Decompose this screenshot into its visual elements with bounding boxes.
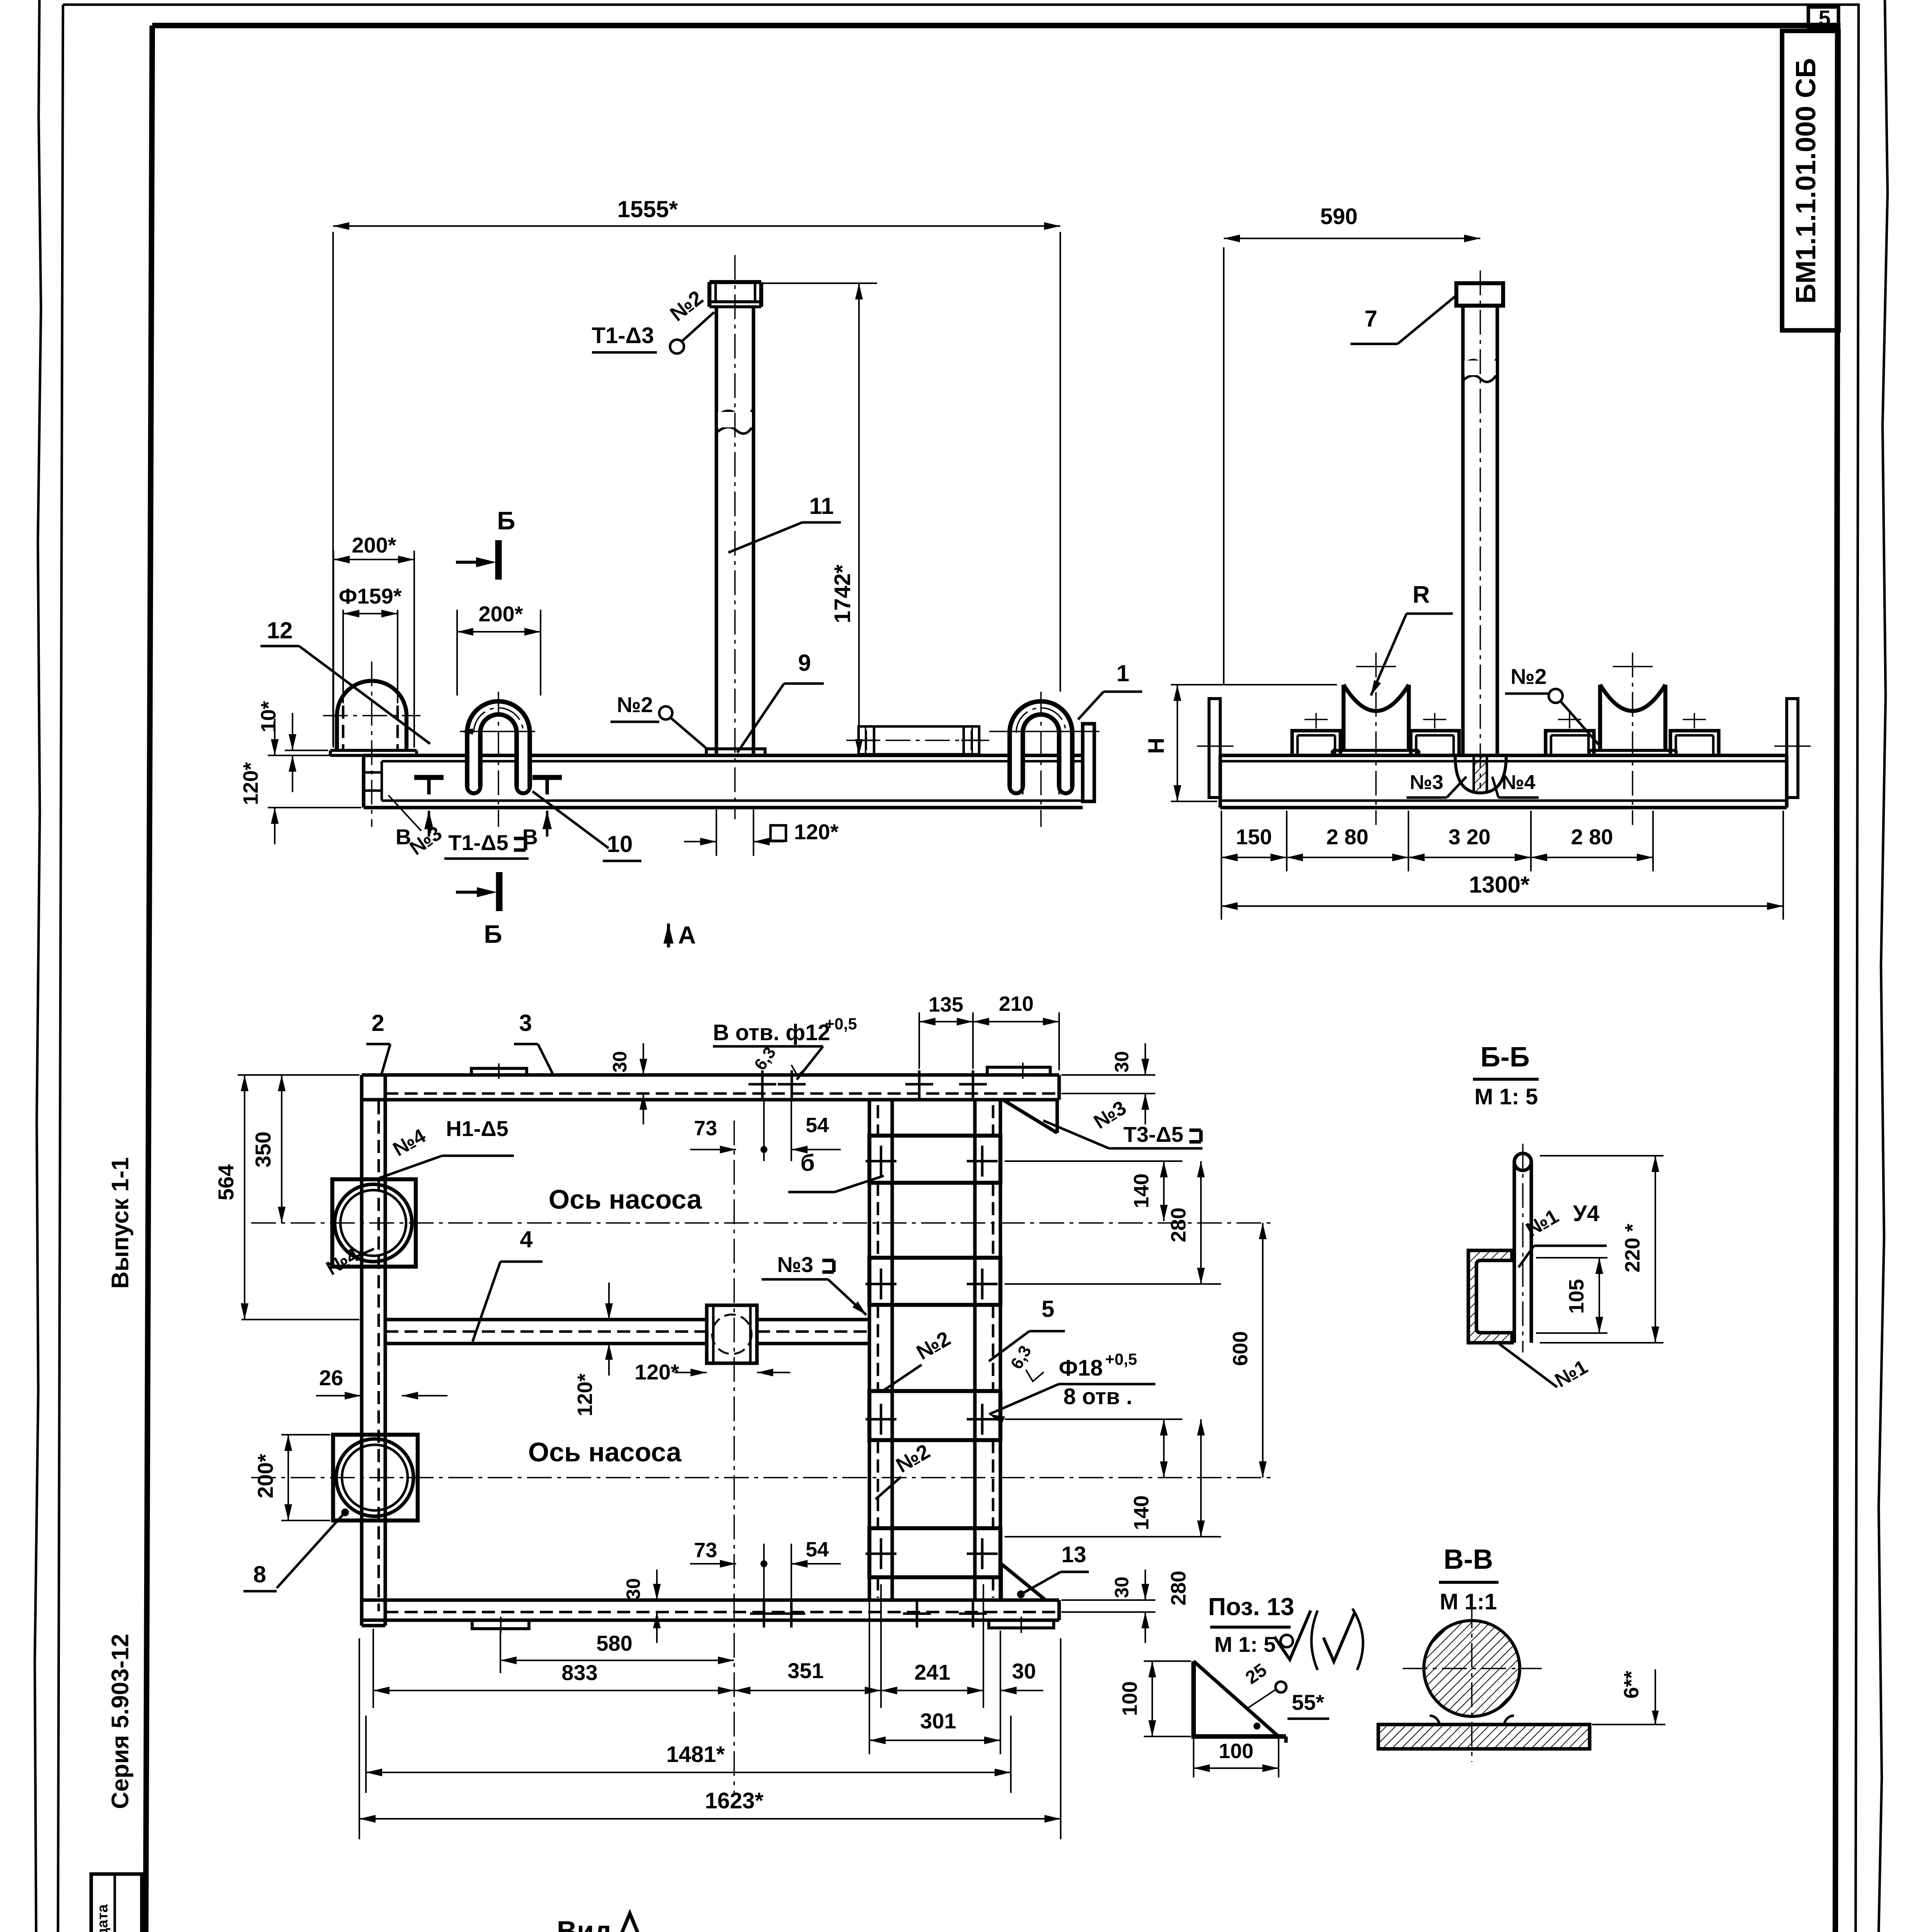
svg-text:Т1-Δ3: Т1-Δ3: [592, 323, 654, 348]
plan view plate row 3: [869, 1391, 1000, 1440]
plan view lower pipe stand square item 8: [333, 1435, 418, 1520]
svg-text:100: 100: [1118, 1681, 1141, 1716]
plan view top bar right tab: [987, 1067, 1050, 1075]
plan view top-right gusset: [1003, 1100, 1057, 1133]
svg-text:200*: 200*: [352, 533, 396, 557]
svg-text:2 80: 2 80: [1327, 825, 1369, 849]
svg-text:120*: 120*: [239, 762, 262, 805]
svg-text:Б-Б: Б-Б: [1480, 1042, 1529, 1073]
section Б-Б rod: [1512, 1162, 1516, 1343]
right view channel stub 1: [1292, 731, 1340, 756]
svg-text:Т3-Δ5: Т3-Δ5: [1123, 1122, 1183, 1146]
svg-text:3 20: 3 20: [1449, 825, 1491, 849]
plan bottom dimension 580: [500, 1631, 501, 1673]
front view dome centerlines: [371, 662, 372, 827]
paper edge right (scan artifact): [1875, 0, 1888, 1932]
plan view upper pipe stand square item 8: [332, 1179, 416, 1267]
plan view top bar: [362, 1073, 1059, 1077]
svg-text:Ф18: Ф18: [1059, 1355, 1103, 1381]
front view post break symbol: [716, 408, 753, 417]
dimension 30 bottom bar right: [1061, 1599, 1155, 1601]
svg-text:5: 5: [1041, 1296, 1054, 1322]
svg-text:105: 105: [1565, 1279, 1588, 1314]
right view right saddle centerline: [1632, 653, 1633, 825]
svg-text:Ф159*: Ф159*: [338, 584, 401, 608]
plan view ladder left rail: [867, 1100, 871, 1600]
svg-text:№3: №3: [777, 1252, 813, 1277]
svg-text:200*: 200*: [478, 602, 523, 626]
front view hidden equipment outline: [859, 726, 979, 754]
svg-text:4: 4: [520, 1226, 533, 1252]
plan view upper stand circles: [335, 1184, 412, 1262]
dimension 200* lower square: [281, 1434, 330, 1435]
svg-text:Серия 5.903-12: Серия 5.903-12: [107, 1634, 134, 1809]
section mark В left with arrow: [424, 811, 434, 829]
dimension 1555*: [332, 232, 334, 746]
right view weld boss at post base No3 No4: [1455, 756, 1506, 793]
svg-text:Поз. 13: Поз. 13: [1208, 1593, 1294, 1621]
plan view plate row 2: [869, 1258, 1000, 1305]
right view right end plate: [1787, 699, 1798, 798]
plan frame vertical center axis: [733, 1121, 735, 1793]
dimension 10* saddle pad thickness: [285, 750, 328, 751]
plan view ladder right rail: [973, 1100, 976, 1600]
right side dimension 140 lower: [1005, 1418, 1182, 1420]
plan view lower stand circles: [336, 1439, 413, 1516]
plan view top bar left tab: [471, 1068, 527, 1075]
dimension 350 left: [238, 1074, 359, 1076]
svg-text:590: 590: [1320, 204, 1358, 229]
right view post face: [1461, 306, 1464, 755]
section В-В rod circle hatched: [1424, 1621, 1520, 1716]
right side dimension 280 upper: [1005, 1283, 1221, 1285]
svg-text:26: 26: [319, 1366, 343, 1390]
svg-text:№4: №4: [1502, 771, 1536, 794]
svg-text:1: 1: [1116, 660, 1129, 686]
dimension 200* over dome pad: [333, 551, 334, 748]
detail Поз.13 triangle: [1194, 1661, 1286, 1736]
dimension 73 54 top: [763, 1101, 765, 1161]
svg-text:У4: У4: [1573, 1201, 1599, 1226]
right view left saddle R: [1344, 685, 1409, 750]
dimension 1742* vertical: [761, 282, 877, 284]
svg-text:А: А: [678, 921, 696, 949]
dimension 1300*: [1782, 811, 1784, 920]
detail Поз.13 weld symbols: [1274, 1611, 1311, 1660]
svg-text:Б: Б: [484, 920, 502, 948]
plan view bottom bar right tab: [989, 1620, 1054, 1628]
plan bottom dimension 1623*: [359, 1638, 360, 1839]
dimension 73 54 bottom: [763, 1544, 765, 1611]
dimension 120* rail width rotated: [608, 1282, 610, 1320]
svg-text:В-В: В-В: [1444, 1544, 1493, 1575]
svg-text:280: 280: [1167, 1207, 1190, 1242]
svg-text:№2: №2: [617, 692, 653, 717]
right view post cap item 7: [1456, 283, 1503, 306]
svg-text:6**: 6**: [1620, 1671, 1643, 1699]
svg-text:55*: 55*: [1292, 1690, 1324, 1714]
front view beam channel side: [364, 753, 1083, 757]
svg-text:210: 210: [999, 992, 1034, 1015]
plan view bottom bar: [362, 1598, 1059, 1602]
front view beam left end: [362, 755, 365, 808]
front view U-bolt clamp item 10: [467, 730, 480, 787]
plan view plate row 4: [869, 1528, 1000, 1577]
svg-text:5: 5: [1818, 6, 1830, 30]
detail Поз.13 dimension 100 vertical: [1144, 1660, 1191, 1662]
svg-text:73: 73: [694, 1539, 717, 1562]
plan view bolt holes on bars: [748, 1083, 776, 1086]
plan view bottom bar left tab: [472, 1620, 529, 1629]
svg-text:564: 564: [214, 1164, 238, 1200]
svg-text:833: 833: [561, 1660, 597, 1685]
section Б-Б dimension 220*: [1540, 1155, 1663, 1156]
svg-text:7: 7: [1364, 306, 1377, 332]
svg-text:8: 8: [253, 1561, 266, 1587]
section Б-Б channel with hatch: [1468, 1250, 1512, 1343]
svg-text:350: 350: [251, 1131, 275, 1167]
upper pump axis line: [251, 1222, 1273, 1224]
right view channel stub 4: [1670, 731, 1719, 756]
svg-text:73: 73: [694, 1117, 717, 1140]
svg-text:2 80: 2 80: [1571, 825, 1613, 849]
svg-text:Н: Н: [1144, 738, 1169, 754]
svg-text:30: 30: [622, 1578, 644, 1600]
svg-text:280: 280: [1167, 1571, 1190, 1605]
svg-text:200*: 200*: [253, 1454, 277, 1498]
plan bottom dimension 833: [372, 1629, 374, 1708]
svg-text:Т1-Δ5: Т1-Δ5: [448, 830, 508, 855]
svg-text:Вид: Вид: [557, 1916, 612, 1932]
right view left saddle centerline: [1375, 653, 1377, 825]
svg-text:30: 30: [609, 1051, 631, 1073]
plan bottom dimension 30: [1000, 1631, 1001, 1754]
svg-text:11: 11: [809, 493, 833, 519]
svg-text:Ось насоса: Ось насоса: [549, 1184, 702, 1214]
svg-text:10: 10: [607, 831, 633, 857]
section mark В right with arrow: [543, 811, 552, 829]
plan view tab center ticks: [498, 1063, 500, 1079]
svg-text:БМ1.1.1.01.000 СБ: БМ1.1.1.01.000 СБ: [1791, 58, 1821, 304]
svg-text:100: 100: [1219, 1740, 1253, 1763]
front view U-bolt 10 centerlines: [498, 692, 499, 827]
detail Поз.13 dimension 100 horizontal: [1193, 1739, 1194, 1777]
section mark Б lower: [496, 872, 503, 911]
right side dimension 140 upper: [1005, 1160, 1182, 1162]
paper edge left (scan artifact): [32, 0, 41, 1932]
front view dome saddle base plate item 12 pad: [330, 749, 417, 752]
svg-text:140: 140: [1130, 1173, 1153, 1208]
svg-text:120*: 120*: [573, 1373, 597, 1416]
svg-text:54: 54: [806, 1114, 829, 1137]
svg-text:1481*: 1481*: [666, 1742, 725, 1767]
front view post centerline: [734, 255, 736, 819]
plan view plate row 1 item 6: [869, 1136, 1000, 1183]
front view right U-bolt item 1: [1010, 730, 1023, 787]
view direction mark А: [663, 923, 673, 944]
svg-text:Б: Б: [497, 506, 515, 535]
plan view left member: [360, 1075, 363, 1626]
front view beam right end plate: [1083, 724, 1094, 801]
svg-text:30: 30: [1012, 1659, 1036, 1683]
section В-В centerlines: [1403, 1668, 1542, 1669]
svg-text:580: 580: [596, 1631, 632, 1655]
right view channel stub 3: [1546, 731, 1594, 756]
front view post base plate item 9: [706, 749, 765, 755]
svg-text:241: 241: [914, 1660, 950, 1684]
svg-text:R: R: [1413, 582, 1430, 608]
svg-text:150: 150: [1236, 825, 1272, 849]
svg-text:54: 54: [806, 1538, 829, 1561]
svg-text:120*: 120*: [794, 820, 838, 844]
svg-text:10*: 10*: [257, 701, 280, 732]
right view post centerline: [1480, 270, 1481, 788]
svg-text:8 отв .: 8 отв .: [1063, 1384, 1133, 1409]
right view channel stub 2: [1411, 731, 1459, 756]
svg-text:М 1: 5: М 1: 5: [1214, 1632, 1276, 1656]
right view stub centerline ticks: [1315, 713, 1317, 728]
right side dimension 280 lower: [1005, 1536, 1221, 1537]
margin stamp table: [91, 1874, 142, 1932]
svg-text:+0,5: +0,5: [825, 1015, 857, 1033]
svg-text:30: 30: [1111, 1577, 1133, 1598]
right view post break symbol: [1463, 358, 1497, 366]
svg-text:3: 3: [519, 1010, 532, 1036]
svg-text:351: 351: [787, 1658, 823, 1683]
dimension 30 top bar right: [1061, 1074, 1155, 1076]
dimension 200* over U-bolt 10: [456, 610, 458, 696]
svg-text:1300*: 1300*: [1469, 872, 1530, 898]
svg-text:2: 2: [371, 1010, 384, 1036]
section В-В base plate hatched: [1378, 1725, 1590, 1749]
svg-text:140: 140: [1130, 1495, 1153, 1530]
right view left end plate: [1209, 699, 1220, 798]
svg-text:13: 13: [1061, 1542, 1087, 1567]
section В-В dimension 6**: [1592, 1724, 1665, 1725]
front view dome saddle item 12: [337, 681, 406, 716]
svg-text:1742*: 1742*: [830, 565, 855, 623]
dimension Ф159* dome pipe: [342, 610, 344, 703]
right view right saddle R: [1600, 685, 1665, 750]
weld T-symbols inside beam: [414, 775, 444, 780]
plan bottom dimension 301: [869, 1584, 870, 1754]
plan bottom dimension 241: [983, 1584, 984, 1708]
svg-text:+0,5: +0,5: [1105, 1350, 1137, 1368]
dimension square 120* post: [716, 810, 717, 856]
svg-text:135: 135: [929, 993, 963, 1016]
svg-text:В отв. ф12: В отв. ф12: [713, 1020, 830, 1045]
svg-text:Н1-Δ5: Н1-Δ5: [446, 1116, 509, 1141]
plan bottom dimension 1481*: [365, 1716, 367, 1793]
svg-text:1623*: 1623*: [705, 1788, 764, 1813]
dimension 590: [1223, 247, 1225, 685]
plan bottom dimension 351: [880, 1584, 882, 1708]
right view beam channel face: [1220, 753, 1787, 757]
svg-text:Ось насоса: Ось насоса: [528, 1437, 682, 1467]
svg-text:600: 600: [1229, 1331, 1252, 1366]
svg-text:Выпуск 1-1: Выпуск 1-1: [107, 1157, 134, 1289]
front view post item 11 channel: [714, 307, 718, 755]
dimension 30 top bar left: [643, 1043, 644, 1075]
plan view middle rail item 4: [385, 1318, 707, 1321]
dimension 120* center block: [674, 1372, 707, 1373]
front view post cap channel No2: [709, 280, 761, 284]
right side dimension 600: [1262, 1223, 1264, 1478]
dimension 564 left: [241, 1319, 359, 1320]
right view chain dimensions 150 280 320 280: [1221, 811, 1222, 871]
label 10 with leader: [532, 791, 609, 848]
plan view bottom-right gusset item 13: [1001, 1564, 1046, 1600]
svg-text:120*: 120*: [634, 1360, 679, 1384]
svg-text:1555*: 1555*: [617, 196, 678, 222]
dimension 30 bottom bar left: [656, 1570, 658, 1600]
dimension H right view: [1171, 684, 1337, 685]
plan view center block: [707, 1305, 757, 1363]
svg-text:9: 9: [798, 650, 811, 676]
svg-text:б: б: [800, 1150, 815, 1176]
dimension 120* beam height: [268, 755, 361, 756]
svg-text:220 *: 220 *: [1621, 1224, 1644, 1272]
svg-text:301: 301: [920, 1709, 956, 1733]
svg-text:№2: №2: [1510, 664, 1547, 689]
svg-text:М 1:1: М 1:1: [1440, 1589, 1497, 1614]
lower pump axis line: [251, 1477, 1273, 1478]
svg-text:12: 12: [267, 617, 293, 643]
svg-text:Подп. и дата: Подп. и дата: [95, 1904, 111, 1932]
svg-text:30: 30: [1111, 1051, 1133, 1073]
svg-text:№3: №3: [1410, 771, 1444, 794]
section В-В weld fillets: [1430, 1716, 1439, 1725]
svg-text:М 1: 5: М 1: 5: [1475, 1084, 1538, 1109]
rotated document-number stamp БМ1.1.1.01.000 СБ top-right: [1782, 31, 1838, 330]
dimension 135 210 top: [918, 1012, 920, 1069]
section Б-Б dimension 105: [1536, 1257, 1607, 1259]
corner sheet-number box with 5: [1808, 7, 1838, 29]
